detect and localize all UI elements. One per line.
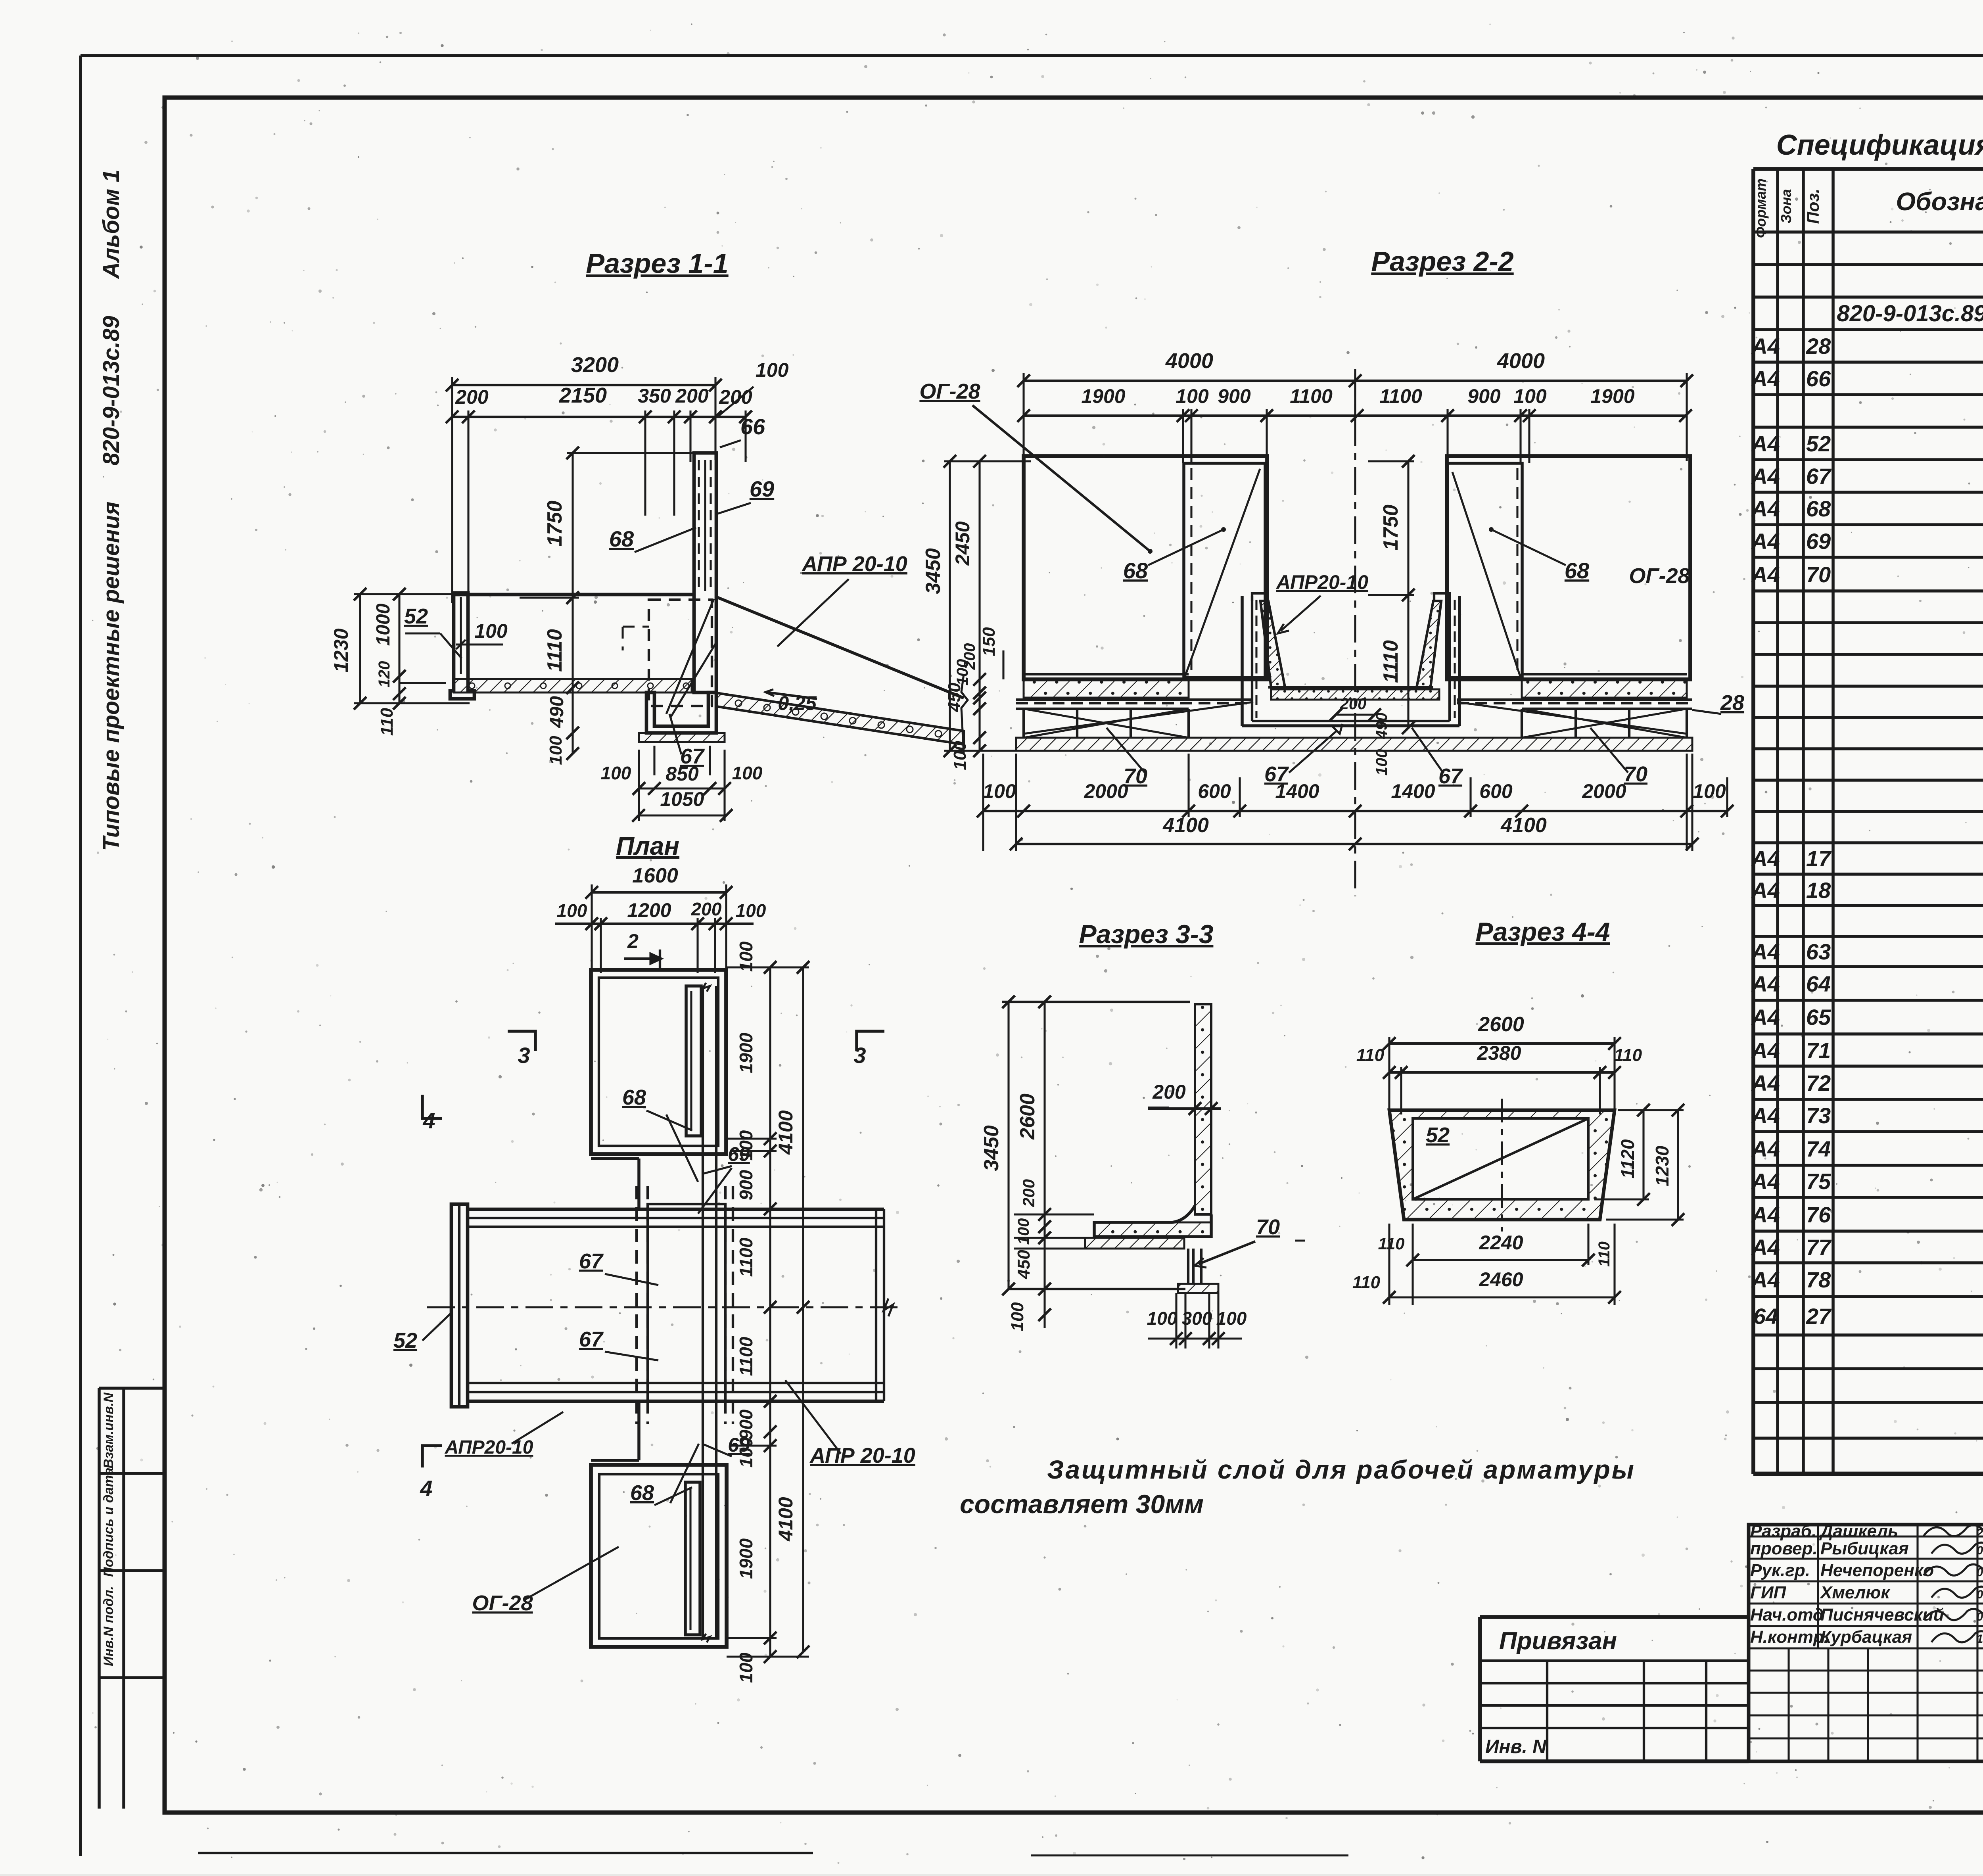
svg-text:68: 68 <box>1806 496 1831 521</box>
svg-text:Курбацкая: Курбацкая <box>1820 1627 1912 1647</box>
svg-text:4100: 4100 <box>1162 814 1209 837</box>
svg-text:100: 100 <box>756 359 789 381</box>
svg-text:1600: 1600 <box>632 864 678 887</box>
svg-text:А4: А4 <box>1751 529 1780 554</box>
svg-text:3450: 3450 <box>922 548 945 594</box>
svg-text:67: 67 <box>579 1249 604 1273</box>
svg-text:110: 110 <box>1596 1241 1613 1267</box>
svg-text:850: 850 <box>665 763 699 785</box>
svg-text:1900: 1900 <box>1590 385 1634 407</box>
svg-text:1100: 1100 <box>736 1337 756 1376</box>
svg-text:76: 76 <box>1806 1202 1831 1227</box>
svg-text:А4: А4 <box>1751 1070 1780 1095</box>
svg-text:120: 120 <box>376 661 393 688</box>
svg-text:Защитный слой для рабочей: Защитный слой для рабочей арматуры <box>1047 1455 1634 1484</box>
svg-text:Формат: Формат <box>1753 178 1769 238</box>
svg-text:3450: 3450 <box>980 1125 1003 1171</box>
svg-text:1110: 1110 <box>1379 640 1402 683</box>
svg-text:100: 100 <box>1147 1308 1178 1329</box>
svg-text:100: 100 <box>950 741 970 770</box>
svg-text:200: 200 <box>455 386 489 408</box>
svg-text:А4: А4 <box>1751 464 1780 489</box>
svg-text:4000: 4000 <box>1497 349 1545 373</box>
svg-text:А4: А4 <box>1751 1202 1780 1227</box>
svg-text:4000: 4000 <box>1165 349 1213 373</box>
svg-text:Разрез 2-2: Разрез 2-2 <box>1371 246 1513 277</box>
svg-text:100: 100 <box>954 659 971 686</box>
svg-text:450: 450 <box>1014 1250 1034 1279</box>
svg-text:68: 68 <box>609 526 634 551</box>
svg-text:4100: 4100 <box>775 1497 797 1541</box>
svg-text:А4: А4 <box>1751 939 1780 964</box>
svg-text:Обозначение: Обозначение <box>1896 187 1983 216</box>
svg-text:28: 28 <box>1806 334 1831 359</box>
svg-text:200: 200 <box>691 899 722 919</box>
svg-text:68: 68 <box>622 1086 646 1109</box>
svg-text:350: 350 <box>638 385 671 407</box>
svg-text:3200: 3200 <box>571 353 619 377</box>
svg-text:70: 70 <box>1806 562 1831 587</box>
svg-text:14.12.88: 14.12.88 <box>1977 1632 1983 1646</box>
svg-text:1900: 1900 <box>736 1032 756 1073</box>
svg-text:Спецификация к схеме армиро: Спецификация к схеме армирования <box>1776 129 1983 161</box>
svg-text:А4: А4 <box>1751 1169 1780 1194</box>
svg-text:Разрез 4-4: Разрез 4-4 <box>1476 917 1610 946</box>
svg-text:100: 100 <box>1373 749 1390 776</box>
svg-text:2000: 2000 <box>1582 780 1626 802</box>
svg-text:70: 70 <box>1624 762 1647 786</box>
svg-text:100: 100 <box>736 900 766 921</box>
svg-text:200: 200 <box>1019 1179 1038 1207</box>
svg-text:1400: 1400 <box>1391 780 1435 802</box>
svg-text:52: 52 <box>1426 1123 1450 1147</box>
svg-text:900: 900 <box>1467 385 1501 407</box>
svg-text:69: 69 <box>728 1434 750 1456</box>
svg-text:69: 69 <box>728 1143 750 1165</box>
svg-text:100: 100 <box>474 620 508 642</box>
svg-text:68: 68 <box>630 1481 654 1505</box>
svg-text:2240: 2240 <box>1479 1231 1523 1254</box>
svg-text:Писнячевский: Писнячевский <box>1820 1605 1944 1625</box>
svg-text:150: 150 <box>979 627 999 656</box>
svg-text:1100: 1100 <box>1379 385 1422 407</box>
svg-text:2460: 2460 <box>1479 1268 1523 1291</box>
svg-text:68: 68 <box>1123 558 1148 583</box>
svg-text:А4: А4 <box>1751 562 1780 587</box>
svg-text:1200: 1200 <box>627 899 671 921</box>
svg-text:200: 200 <box>719 386 752 408</box>
svg-text:Нечепоренко: Нечепоренко <box>1820 1561 1934 1580</box>
svg-text:1400: 1400 <box>1275 780 1319 802</box>
svg-text:АПР 20-10: АПР 20-10 <box>809 1444 915 1467</box>
svg-text:52: 52 <box>404 604 428 628</box>
svg-text:71: 71 <box>1806 1038 1831 1063</box>
svg-text:составляет 30мм: составляет 30мм <box>960 1489 1204 1519</box>
svg-text:52: 52 <box>393 1329 417 1352</box>
svg-text:64: 64 <box>1806 971 1831 996</box>
svg-text:3: 3 <box>518 1043 530 1068</box>
svg-text:2600: 2600 <box>1016 1093 1039 1140</box>
svg-text:1000: 1000 <box>373 603 394 646</box>
svg-text:2: 2 <box>627 930 639 952</box>
svg-text:провер.: провер. <box>1750 1539 1818 1558</box>
svg-text:66: 66 <box>740 414 765 439</box>
svg-text:100: 100 <box>1176 385 1209 407</box>
svg-text:Привязан: Привязан <box>1499 1627 1617 1655</box>
svg-text:820-9-013с.89: 820-9-013с.89 <box>98 316 124 465</box>
svg-text:110: 110 <box>1352 1273 1381 1292</box>
svg-text:1750: 1750 <box>1379 504 1402 551</box>
svg-text:1100: 1100 <box>736 1237 756 1277</box>
svg-text:74: 74 <box>1806 1136 1831 1161</box>
svg-text:Разрез 3-3: Разрез 3-3 <box>1079 919 1214 949</box>
svg-text:66: 66 <box>1806 366 1831 391</box>
svg-text:1900: 1900 <box>736 1538 756 1579</box>
svg-text:100: 100 <box>1693 780 1726 802</box>
svg-text:А4: А4 <box>1751 1038 1780 1063</box>
svg-text:ГИП: ГИП <box>1750 1583 1787 1602</box>
svg-text:600: 600 <box>1479 780 1513 802</box>
svg-text:1230: 1230 <box>1652 1145 1672 1186</box>
svg-text:200: 200 <box>1152 1081 1186 1103</box>
svg-text:2450: 2450 <box>951 521 974 566</box>
svg-text:1120: 1120 <box>1617 1139 1638 1178</box>
svg-text:75: 75 <box>1806 1169 1831 1194</box>
svg-text:4: 4 <box>420 1476 432 1501</box>
svg-text:Нач.отд: Нач.отд <box>1750 1605 1824 1625</box>
svg-text:Подпись и дата: Подпись и дата <box>101 1467 116 1577</box>
svg-text:Зона: Зона <box>1778 189 1794 224</box>
svg-text:110: 110 <box>1356 1045 1385 1065</box>
svg-text:План: План <box>616 832 679 860</box>
svg-text:68: 68 <box>1565 558 1590 583</box>
svg-text:Поз.: Поз. <box>1804 189 1822 224</box>
svg-text:100: 100 <box>1513 385 1547 407</box>
svg-text:2000: 2000 <box>1084 780 1128 802</box>
svg-text:67: 67 <box>1438 764 1463 788</box>
svg-text:78: 78 <box>1806 1267 1831 1292</box>
svg-text:Разрез 1-1: Разрез 1-1 <box>586 248 728 279</box>
svg-text:63: 63 <box>1806 939 1831 964</box>
svg-text:Взам.инв.N: Взам.инв.N <box>101 1392 116 1469</box>
svg-text:АПР20-10: АПР20-10 <box>445 1437 533 1458</box>
svg-text:65: 65 <box>1806 1005 1831 1030</box>
svg-text:100: 100 <box>557 900 587 921</box>
svg-text:2380: 2380 <box>1477 1042 1521 1064</box>
svg-text:А4: А4 <box>1751 971 1780 996</box>
svg-text:ОГ-28: ОГ-28 <box>919 380 980 403</box>
svg-text:52: 52 <box>1806 431 1831 456</box>
svg-text:2600: 2600 <box>1478 1013 1524 1036</box>
svg-text:А4: А4 <box>1751 431 1780 456</box>
svg-text:А4: А4 <box>1751 1103 1780 1128</box>
svg-text:А4: А4 <box>1751 878 1780 903</box>
svg-text:1900: 1900 <box>1081 385 1125 407</box>
svg-text:1230: 1230 <box>330 628 352 672</box>
svg-text:64: 64 <box>1753 1304 1778 1329</box>
svg-text:100: 100 <box>546 736 566 765</box>
svg-text:4: 4 <box>422 1108 435 1133</box>
svg-text:72: 72 <box>1806 1070 1831 1095</box>
svg-text:Инв.N подл.: Инв.N подл. <box>101 1586 116 1666</box>
svg-text:А4: А4 <box>1751 1235 1780 1260</box>
svg-text:200: 200 <box>1340 695 1367 713</box>
svg-text:100: 100 <box>601 763 631 783</box>
svg-text:67: 67 <box>1806 464 1832 489</box>
svg-text:Хмелюк: Хмелюк <box>1819 1583 1891 1602</box>
svg-text:Рыбицкая: Рыбицкая <box>1820 1539 1909 1558</box>
svg-text:900: 900 <box>736 1170 756 1200</box>
svg-text:820-9-013с.89-КЖН-: 820-9-013с.89-КЖН- <box>1837 301 1983 326</box>
svg-text:100: 100 <box>732 763 763 783</box>
svg-text:110: 110 <box>1378 1234 1405 1253</box>
svg-text:100: 100 <box>1008 1302 1027 1331</box>
svg-text:450: 450 <box>945 683 964 712</box>
svg-text:1100: 1100 <box>1290 385 1333 407</box>
svg-text:А4: А4 <box>1751 846 1780 871</box>
svg-text:ОГ-28: ОГ-28 <box>1629 564 1690 588</box>
svg-text:100: 100 <box>1216 1308 1247 1329</box>
svg-text:200: 200 <box>675 385 709 407</box>
svg-text:69: 69 <box>1806 529 1831 554</box>
svg-text:08.12.88: 08.12.88 <box>1977 1588 1983 1601</box>
svg-text:1050: 1050 <box>660 788 704 810</box>
svg-text:Рук.гр.: Рук.гр. <box>1750 1561 1810 1580</box>
svg-text:Н.контр.: Н.контр. <box>1750 1627 1829 1647</box>
svg-text:28: 28 <box>1720 691 1744 715</box>
svg-text:1110: 1110 <box>543 629 566 672</box>
svg-text:100: 100 <box>983 780 1016 802</box>
svg-text:490: 490 <box>547 696 568 728</box>
svg-text:67: 67 <box>579 1327 604 1351</box>
svg-text:110: 110 <box>377 708 397 736</box>
svg-text:110: 110 <box>1614 1045 1642 1065</box>
svg-text:Разраб.: Разраб. <box>1750 1521 1816 1541</box>
svg-text:4100: 4100 <box>1500 814 1547 837</box>
svg-text:69: 69 <box>750 476 774 501</box>
svg-text:А4: А4 <box>1751 1267 1780 1292</box>
svg-text:ОГ-28: ОГ-28 <box>472 1591 533 1615</box>
svg-text:А4: А4 <box>1751 1005 1780 1030</box>
svg-text:АПР 20-10: АПР 20-10 <box>801 552 907 576</box>
svg-text:100: 100 <box>1015 1218 1032 1245</box>
svg-text:А4: А4 <box>1751 496 1780 521</box>
svg-text:1750: 1750 <box>543 501 566 547</box>
svg-text:73: 73 <box>1806 1103 1831 1128</box>
svg-text:Дашкель: Дашкель <box>1819 1521 1898 1541</box>
svg-text:А4: А4 <box>1751 366 1780 391</box>
svg-text:77: 77 <box>1806 1235 1832 1260</box>
svg-text:Альбом 1: Альбом 1 <box>98 169 124 279</box>
svg-text:Типовые проектные решени: Типовые проектные решения <box>98 501 124 851</box>
svg-text:27: 27 <box>1806 1304 1832 1329</box>
svg-text:18: 18 <box>1806 878 1831 903</box>
svg-text:Инв. N: Инв. N <box>1485 1736 1547 1757</box>
svg-text:600: 600 <box>1198 780 1231 802</box>
svg-text:70: 70 <box>1256 1215 1280 1239</box>
svg-text:900: 900 <box>1218 385 1251 407</box>
svg-text:А4: А4 <box>1751 334 1780 359</box>
svg-text:17: 17 <box>1806 846 1832 871</box>
svg-text:4100: 4100 <box>775 1110 797 1155</box>
svg-text:07.12.88: 07.12.88 <box>1977 1544 1983 1557</box>
svg-text:490: 490 <box>1373 713 1390 740</box>
svg-text:2150: 2150 <box>559 384 607 407</box>
